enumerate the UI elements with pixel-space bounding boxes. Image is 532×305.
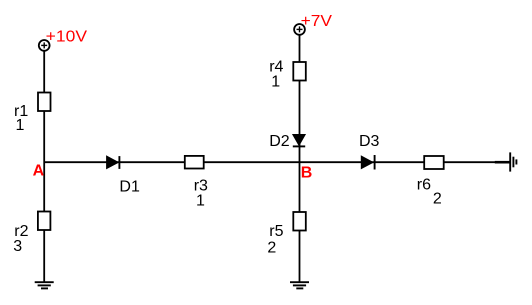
resistor r6 — [424, 156, 444, 169]
label r1 value 1 — [14, 103, 28, 134]
svg-text:D3: D3 — [359, 133, 380, 150]
ground (right, rotated) — [510, 152, 516, 171]
resistor r1 — [38, 93, 51, 112]
label r2 value 3 — [13, 223, 28, 255]
wire middle vertical from +7V source through B to ground — [299, 35, 301, 282]
ground (middle) — [290, 282, 309, 288]
resistor r3 — [185, 156, 204, 169]
label r5 value 2 — [267, 223, 283, 256]
svg-text:r6: r6 — [417, 177, 431, 194]
svg-text:A: A — [33, 163, 45, 180]
svg-text:2: 2 — [267, 239, 276, 256]
svg-text:1: 1 — [196, 192, 205, 209]
svg-text:1: 1 — [16, 117, 25, 134]
resistor r4 — [293, 62, 306, 81]
diode D1 — [107, 156, 120, 169]
svg-text:+10V: +10V — [46, 28, 88, 45]
svg-text:2: 2 — [433, 191, 442, 208]
label r3 value 1 — [194, 178, 208, 210]
svg-text:+7V: +7V — [301, 13, 333, 30]
voltage source V1 (+10V symbol) — [39, 40, 50, 51]
wire left vertical from +10V source through A to ground — [43, 51, 45, 282]
wire main horizontal A to right ground — [44, 161, 510, 163]
svg-text:3: 3 — [13, 238, 22, 255]
wire stub at right ground — [495, 161, 510, 164]
resistor r2 — [38, 212, 51, 231]
voltage source V2 (+7V symbol) — [294, 24, 305, 35]
diode D3 — [361, 155, 374, 170]
svg-text:r5: r5 — [269, 223, 283, 240]
label r4 value 1 — [269, 58, 283, 90]
ground (left) — [35, 282, 54, 288]
svg-text:B: B — [301, 165, 313, 182]
svg-text:1: 1 — [271, 74, 280, 91]
svg-text:D1: D1 — [119, 178, 140, 195]
diode D2 — [293, 135, 305, 147]
resistor r5 — [293, 212, 306, 231]
label r6 value 2 — [417, 177, 442, 208]
svg-text:D2: D2 — [269, 133, 290, 150]
